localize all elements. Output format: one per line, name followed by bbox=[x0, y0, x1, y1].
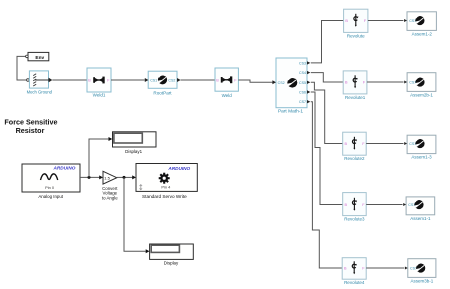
label Convert Voltage to Angle bbox=[102, 186, 118, 201]
block Weld bbox=[215, 68, 238, 91]
svg-text:Assem1-1: Assem1-1 bbox=[410, 216, 431, 221]
wire Ground to Weld1 bbox=[52, 79, 87, 81]
port RootPart B bbox=[145, 78, 149, 82]
svg-text:CS4: CS4 bbox=[299, 71, 306, 75]
svg-text:to Angle: to Angle bbox=[102, 196, 118, 201]
svg-text:CS6: CS6 bbox=[299, 91, 306, 95]
svg-text:Assem1-3: Assem1-3 bbox=[411, 155, 432, 160]
port Assem2b-1 CS1 bbox=[404, 81, 407, 84]
svg-text:ARDUINO: ARDUINO bbox=[53, 166, 76, 171]
wire branch down to Display bbox=[124, 177, 146, 251]
svg-text:Revolute2: Revolute2 bbox=[344, 156, 365, 161]
port Assem1-2 CS1 bbox=[404, 19, 407, 22]
svg-text:Pin 0: Pin 0 bbox=[45, 185, 55, 190]
port circle Ground bbox=[27, 79, 30, 82]
svg-text:Display: Display bbox=[164, 260, 179, 265]
svg-text:Revolute: Revolute bbox=[347, 33, 365, 38]
port RootPart F bbox=[177, 78, 181, 82]
port PartMath CS3 bbox=[307, 61, 310, 64]
joint Revolute bbox=[344, 9, 368, 32]
port PartMath CS5 bbox=[307, 81, 310, 84]
wire Gain to Servo bbox=[117, 176, 133, 178]
port PartMath CS6 bbox=[307, 90, 310, 93]
joint Revolute4 bbox=[342, 258, 366, 280]
block Standard Servo Write bbox=[136, 164, 197, 192]
block Assem1-2 bbox=[407, 12, 436, 31]
wire branch up to Display1 bbox=[89, 139, 109, 177]
block Ground bbox=[29, 71, 48, 88]
svg-text:CS2: CS2 bbox=[278, 81, 285, 85]
wire Revolute1 to Assem2b-1 bbox=[367, 81, 404, 83]
svg-text:Revolute4: Revolute4 bbox=[344, 280, 365, 285]
arrow into Display bbox=[146, 249, 150, 253]
block RootPart bbox=[148, 71, 177, 88]
gain Convert Voltage to Angle bbox=[103, 171, 117, 184]
wire Weld to PartMath bbox=[238, 80, 272, 82]
port Assem1-1 CS1 bbox=[403, 203, 406, 206]
svg-text:Part Math-1: Part Math-1 bbox=[278, 109, 303, 115]
svg-text:CS1: CS1 bbox=[150, 78, 157, 82]
joint Revolute2 bbox=[343, 132, 367, 155]
svg-text:CS5: CS5 bbox=[299, 81, 306, 85]
wire CS4 to Revolute1 bbox=[311, 73, 343, 82]
svg-text:Display1: Display1 bbox=[125, 149, 142, 154]
wire RootPart to Weld bbox=[181, 79, 215, 81]
joint Revolute1 bbox=[343, 71, 367, 94]
port circle Env bbox=[26, 55, 29, 58]
svg-text:CS1: CS1 bbox=[409, 19, 416, 23]
junction dot branch2 bbox=[123, 176, 126, 179]
port Assem1-3 CS1 bbox=[404, 142, 407, 145]
svg-text:Revolute1: Revolute1 bbox=[345, 95, 366, 100]
svg-text:Mech Ground: Mech Ground bbox=[27, 89, 53, 94]
svg-text:CS1: CS1 bbox=[409, 142, 416, 146]
wire Weld1 to RootPart bbox=[111, 79, 145, 81]
arrow into Gain bbox=[99, 175, 103, 179]
svg-text:RootPart: RootPart bbox=[153, 91, 172, 96]
wire Revolute to Assem1-2 bbox=[368, 20, 404, 22]
block Part Math-1 bbox=[276, 58, 307, 108]
svg-text:Assem2b-1: Assem2b-1 bbox=[410, 92, 433, 97]
title text Force Sensitive Resistor bbox=[4, 118, 57, 136]
svg-text:Resistor: Resistor bbox=[16, 126, 45, 135]
port PartMath CS4 bbox=[307, 71, 310, 74]
svg-text:Standard Servo Write: Standard Servo Write bbox=[142, 194, 187, 199]
svg-text:CS1: CS1 bbox=[410, 267, 417, 271]
svg-text:CS1: CS1 bbox=[408, 203, 415, 207]
wire Revolute2 to Assem1-3 bbox=[366, 143, 403, 145]
port PartMath CS2 bbox=[272, 80, 276, 84]
block Assem2b-1 bbox=[407, 73, 436, 92]
svg-text:Weld1: Weld1 bbox=[93, 92, 106, 97]
block Display1 bbox=[113, 132, 157, 147]
block Analog Input bbox=[22, 164, 80, 192]
wire Revolute3 to Assem1-1 bbox=[366, 204, 402, 206]
svg-text:Assem1-2: Assem1-2 bbox=[412, 31, 433, 36]
svg-text:Analog Input: Analog Input bbox=[38, 194, 63, 199]
svg-text:CS2: CS2 bbox=[168, 78, 175, 82]
wire CS3 to Revolute bbox=[311, 21, 344, 63]
port Ground frame bbox=[49, 78, 53, 83]
port PartMath CS7 bbox=[307, 100, 310, 103]
wire CS7 to Revolute4 bbox=[311, 102, 342, 268]
svg-text:Assem3b-1: Assem3b-1 bbox=[411, 278, 434, 283]
svg-text:ARDUINO: ARDUINO bbox=[167, 166, 190, 171]
wire Revolute4 to Assem3b-1 bbox=[366, 267, 404, 269]
wire Env to Ground bbox=[17, 56, 27, 80]
svg-text:Pin 4: Pin 4 bbox=[161, 184, 171, 189]
block Display bbox=[150, 244, 194, 259]
block Assem3b-1 bbox=[408, 259, 436, 278]
wire CS6 to Revolute3 bbox=[311, 92, 343, 205]
block Assem1-1 bbox=[406, 197, 435, 215]
wire CS5 to Revolute2 bbox=[311, 82, 343, 143]
svg-text:B: B bbox=[345, 19, 348, 23]
block Assem1-3 bbox=[407, 135, 436, 153]
arrow into Display1 bbox=[109, 137, 113, 141]
arrow into Servo bbox=[132, 175, 136, 179]
svg-text:CS7: CS7 bbox=[299, 100, 306, 104]
block Weld1 bbox=[87, 68, 111, 92]
block Env bbox=[28, 52, 49, 61]
joint Revolute3 bbox=[343, 193, 367, 216]
svg-text:CS1: CS1 bbox=[409, 81, 416, 85]
port Assem3b-1 CS1 bbox=[405, 267, 408, 270]
svg-text:Weld: Weld bbox=[222, 93, 233, 98]
svg-text:1.5: 1.5 bbox=[104, 175, 110, 180]
wire Analog Input to Gain bbox=[80, 176, 99, 178]
junction dot branch1 bbox=[88, 176, 91, 179]
svg-text:Revolute3: Revolute3 bbox=[344, 217, 365, 222]
svg-text:Env: Env bbox=[35, 55, 44, 61]
svg-text:CS3: CS3 bbox=[299, 61, 306, 65]
